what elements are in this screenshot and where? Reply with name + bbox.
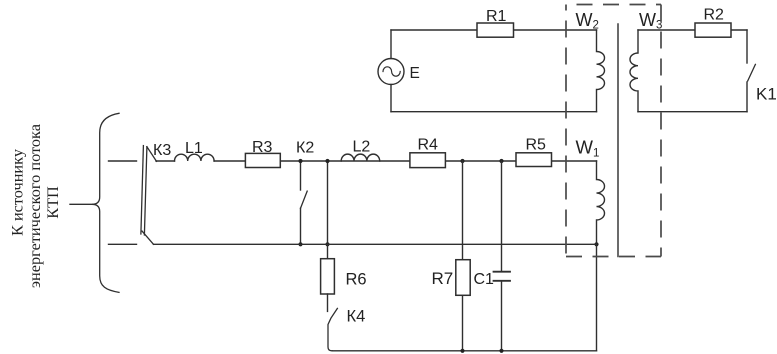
source E sine wave <box>383 67 400 76</box>
winding W1 (transformer secondary) <box>597 161 605 244</box>
wire R6 branch lead <box>327 244 329 258</box>
wire bottom stub from brace <box>109 243 137 245</box>
wire top of K1 loop <box>638 29 747 31</box>
wire K1 upper lead <box>746 30 748 63</box>
winding W2 (transformer primary) <box>597 30 605 112</box>
svg-text:R5: R5 <box>526 137 547 154</box>
svg-text:К3: К3 <box>153 142 171 159</box>
source E circle <box>378 59 404 85</box>
svg-text:К2: К2 <box>296 140 314 157</box>
node dot C1 at rail <box>499 349 503 353</box>
node dot К2 bottom <box>298 242 302 246</box>
wire top of source loop <box>391 29 597 31</box>
svg-text:R7: R7 <box>432 269 454 288</box>
resistor R5 <box>516 153 552 167</box>
inductor L1 <box>175 154 215 161</box>
switch К2 <box>300 161 302 190</box>
wire E top lead <box>390 30 392 59</box>
svg-text:R6: R6 <box>346 271 367 289</box>
svg-text:К4: К4 <box>347 308 366 326</box>
switch K1 blade <box>748 64 756 81</box>
node dot W1 bottom <box>594 242 598 246</box>
resistor R3 <box>245 153 280 167</box>
resistor R7 <box>456 260 470 296</box>
wire top stub from brace <box>109 160 137 162</box>
svg-text:К источнику: К источнику <box>8 148 27 236</box>
capacitor C1 bottom plate <box>494 280 511 282</box>
wire K1 lower lead <box>746 82 748 112</box>
svg-text:R4: R4 <box>418 137 439 154</box>
wire bottom of source loop <box>391 111 597 113</box>
svg-text:КТП: КТП <box>43 186 62 219</box>
resistor R4 <box>410 153 446 168</box>
wire E bottom lead <box>390 85 392 112</box>
node dot top <box>325 159 329 163</box>
transformer boundary dashed box <box>566 5 661 257</box>
node dot bottom <box>325 242 329 246</box>
svg-text:L2: L2 <box>353 139 371 156</box>
wire К3 to L1 <box>156 160 175 162</box>
bottom rail <box>333 350 597 352</box>
wire R7 branch vertical <box>462 161 464 351</box>
svg-text:C1: C1 <box>474 271 495 288</box>
wire bottom of K1 loop <box>638 111 747 113</box>
switch К4 blade <box>328 308 337 350</box>
svg-text:R2: R2 <box>704 7 725 24</box>
wire C1 branch lower <box>501 281 503 351</box>
switch К3 (double knife blades) <box>141 146 144 234</box>
svg-text:R1: R1 <box>486 8 507 25</box>
svg-text:R3: R3 <box>252 139 273 156</box>
wire junction vertical at node between К2 and L2 <box>327 161 329 244</box>
wire C1 branch upper <box>501 161 503 271</box>
wire R6 to К4 <box>327 294 329 311</box>
node dot R7 branch top <box>460 159 464 163</box>
svg-text:L1: L1 <box>185 140 203 157</box>
svg-text:энергетического потока: энергетического потока <box>25 124 44 288</box>
winding W3 <box>630 30 638 112</box>
wire middle bottom return <box>154 243 597 245</box>
node dot К2 top <box>298 159 302 163</box>
svg-text:K1: K1 <box>756 85 777 104</box>
resistor R2 <box>695 23 731 37</box>
resistor R1 <box>477 23 514 37</box>
svg-text:E: E <box>410 65 420 82</box>
wire W1 down to bottom rail <box>596 244 598 350</box>
node dot R7 at rail <box>460 349 464 353</box>
capacitor C1 top plate <box>494 271 511 273</box>
resistor R6 <box>321 259 335 294</box>
transformer core line <box>617 24 619 257</box>
wire L1 to W1 along top of middle branch <box>214 160 596 162</box>
inductor L2 <box>341 154 379 161</box>
brace (source bus bracket) <box>92 113 119 292</box>
node dot C1 branch top <box>499 159 503 163</box>
wire from label to brace <box>70 203 92 205</box>
